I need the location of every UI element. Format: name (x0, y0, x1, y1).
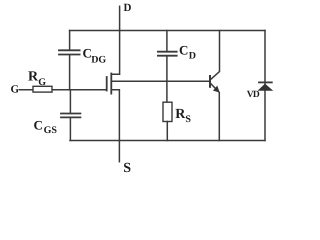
wire: top rail (70, 30, 265, 32)
svg-text:D: D (124, 2, 132, 14)
svg-text:DG: DG (91, 55, 106, 66)
wire: gate wire (20, 89, 107, 91)
wire: middle node wire (FET substrate to BJT base) (111, 80, 210, 82)
wire: bottom rail (70, 140, 265, 142)
svg-text:G: G (11, 84, 20, 96)
transistor Q2 BJT: collector (211, 31, 220, 80)
terminal S (119, 141, 131, 177)
svg-text:C: C (179, 43, 188, 58)
capacitor C_DG (59, 31, 106, 90)
transistor Q2 BJT: base bar (209, 76, 211, 87)
terminal D (120, 2, 132, 31)
capacitor C_D (158, 31, 196, 103)
transistor Q1 MOSFET: channel bar (110, 74, 112, 94)
svg-text:G: G (38, 77, 46, 88)
diode VD (247, 82, 273, 100)
transistor Q1 MOSFET: gate bar (106, 77, 108, 91)
wire: right branch (264, 31, 266, 141)
transistor Q1 MOSFET: source lead (111, 90, 119, 141)
capacitor C_GS (34, 90, 81, 141)
resistor R_G (28, 69, 52, 92)
svg-text:S: S (123, 161, 131, 176)
transistor Q2 BJT: emitter arrow (213, 86, 220, 93)
svg-text:S: S (185, 114, 191, 125)
transistor Q1 MOSFET: drain lead (111, 31, 119, 75)
svg-text:GS: GS (44, 125, 58, 136)
transistor Q2 BJT: emitter (211, 83, 220, 140)
svg-text:D: D (189, 51, 196, 62)
svg-text:VD: VD (247, 90, 260, 100)
svg-text:C: C (34, 117, 43, 132)
resistor R_S (163, 102, 191, 140)
